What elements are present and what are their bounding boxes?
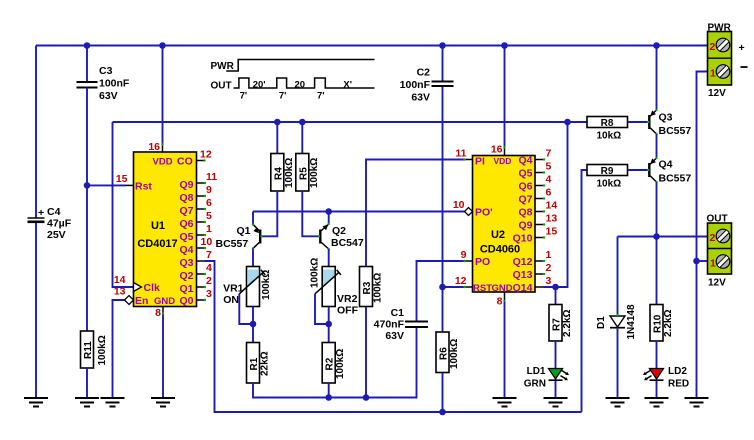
svg-text:Q13: Q13	[513, 269, 533, 281]
svg-text:14: 14	[114, 274, 126, 286]
U1 pin 16 VDD stub	[148, 141, 172, 168]
svg-text:1N4148: 1N4148	[626, 304, 637, 339]
svg-text:R10: R10	[653, 314, 664, 333]
resistor R10 2.2k	[650, 305, 674, 342]
svg-text:10kΩ: 10kΩ	[597, 131, 622, 142]
wire: VR2 bottom to R2	[328, 307, 330, 343]
svg-text:8: 8	[155, 307, 161, 319]
svg-text:+: +	[739, 42, 745, 54]
svg-text:Q14: Q14	[513, 282, 533, 294]
svg-text:15: 15	[116, 173, 128, 185]
svg-text:100nF: 100nF	[99, 78, 130, 90]
node: top rail / U2 VDD	[501, 42, 508, 49]
svg-text:Q5: Q5	[518, 168, 532, 180]
svg-text:100nF: 100nF	[400, 79, 431, 91]
timing diagram PWR trace	[226, 60, 374, 72]
wire: VR1 wiper to lower lead	[239, 294, 253, 324]
svg-text:Q10: Q10	[513, 233, 533, 245]
svg-text:Q3: Q3	[179, 257, 193, 269]
svg-text:C1: C1	[391, 307, 405, 319]
wire: Rst wire to U1 pin 15	[87, 184, 126, 186]
svg-text:Q7: Q7	[518, 194, 532, 206]
svg-text:12: 12	[200, 149, 212, 161]
wire: R3 bottom lead	[365, 307, 367, 398]
svg-text:8: 8	[497, 296, 503, 308]
node: top rail / C3	[84, 42, 91, 49]
svg-text:R11: R11	[83, 341, 94, 359]
op-amp U2 CD4060 IC body	[473, 156, 536, 293]
U1 right pin numbers	[201, 171, 218, 300]
svg-text:BC557: BC557	[659, 125, 692, 137]
resistor R7 2.2k	[549, 305, 573, 342]
op-amp U1 CD4017 IC body	[134, 152, 197, 307]
wire: PWR minus rail down to ground	[697, 72, 708, 399]
wire: R5 top riser	[301, 122, 303, 154]
svg-text:6: 6	[206, 197, 212, 209]
svg-text:PO: PO	[475, 256, 490, 268]
svg-text:X': X'	[343, 80, 352, 91]
wire: Q2 collector to VR2	[328, 249, 330, 267]
svg-text:RST: RST	[473, 283, 492, 294]
U1 pin 12 CO stub	[177, 149, 212, 168]
svg-text:7': 7'	[240, 91, 248, 102]
svg-text:63V: 63V	[99, 90, 118, 102]
U2 pin 9 PO	[461, 249, 491, 268]
transistor Q3 BC557	[647, 109, 691, 137]
U2 pin 11 PI	[455, 148, 485, 168]
timing diagram OUT trace	[234, 78, 375, 88]
wire: +12V top rail	[36, 45, 708, 47]
svg-text:15: 15	[546, 226, 558, 238]
svg-text:PO': PO'	[475, 207, 493, 219]
svg-text:16: 16	[148, 141, 160, 153]
svg-text:25V: 25V	[47, 229, 66, 241]
ground (LD2)	[645, 398, 669, 407]
svg-text:BC557: BC557	[659, 173, 692, 185]
svg-text:2.2kΩ: 2.2kΩ	[663, 310, 674, 337]
wire: Q2 emitter riser	[328, 212, 330, 225]
node: top rail / U1 VDD	[159, 42, 166, 49]
svg-text:VR1: VR1	[223, 283, 244, 295]
wire: C2 from top rail	[442, 46, 444, 82]
U1 right pin stubs Q9..Q0	[197, 183, 205, 300]
svg-text:BC547: BC547	[331, 237, 364, 249]
svg-text:R7: R7	[552, 318, 563, 331]
U2 right pin names	[513, 155, 533, 295]
svg-text:3: 3	[546, 275, 552, 287]
svg-text:R8: R8	[601, 118, 614, 129]
resistor R1 22k	[247, 343, 271, 384]
svg-text:100kΩ: 100kΩ	[310, 258, 321, 288]
svg-text:63V: 63V	[411, 92, 430, 104]
resistor R5 100k	[296, 154, 320, 192]
ground (C4)	[24, 398, 48, 407]
svg-text:16: 16	[491, 144, 503, 156]
svg-text:Clk: Clk	[144, 282, 161, 294]
svg-text:Q12: Q12	[513, 256, 533, 268]
ground (D1)	[606, 398, 630, 407]
node: RST/R6 net on bottom rail	[439, 409, 446, 416]
capacitor C3 100nF 63V	[77, 65, 130, 102]
U1 GND label and pin 8 stub	[154, 296, 175, 319]
svg-text:9: 9	[461, 249, 467, 261]
svg-text:PI: PI	[475, 156, 485, 168]
wire: PO' rail from Q1 emitter to U2 pin 10	[253, 211, 467, 213]
svg-text:PWR: PWR	[211, 61, 235, 72]
svg-text:Q4: Q4	[518, 155, 532, 167]
svg-text:Q4: Q4	[179, 244, 193, 256]
LED LD1 GRN	[524, 366, 569, 390]
capacitor C1 470nF 63V	[374, 307, 428, 342]
svg-text:C3: C3	[99, 65, 113, 77]
node: R3 bottom	[363, 394, 370, 401]
svg-text:47µF: 47µF	[47, 218, 72, 230]
svg-text:9: 9	[206, 184, 212, 196]
node: top rail / Q3 emitter	[653, 42, 660, 49]
wire: D1 anode riser	[617, 237, 619, 317]
svg-text:GND: GND	[154, 296, 175, 307]
wire: D1 cathode to ground	[617, 329, 619, 399]
U1 pin 15 Rst	[116, 173, 153, 193]
wire: Q1 emitter riser	[252, 212, 254, 225]
svg-text:Q9: Q9	[179, 179, 193, 191]
wire: U2 PI to R3 top	[366, 160, 465, 267]
node: VR2 wiper junction	[325, 321, 332, 328]
wire: Q1 collector to VR1	[252, 249, 254, 267]
U1 pin 13 En with inverter diamond	[114, 286, 149, 308]
svg-text:10: 10	[201, 236, 213, 248]
timing diagram labels	[211, 61, 353, 102]
svg-text:7: 7	[206, 249, 212, 261]
U1 right pin names Q9..Q0	[179, 179, 193, 307]
wire: Q3 collector to Q4 emitter	[656, 134, 658, 158]
U2 GND label and pin 8 stub	[492, 283, 513, 308]
svg-text:Q9: Q9	[518, 220, 532, 232]
diode D1 1N4148	[596, 304, 637, 339]
resistor R4 100k	[271, 154, 295, 192]
wire: OUT+ wire from D1 to OUT connector pin 2	[618, 236, 708, 238]
wire: R7 to LD1	[555, 341, 557, 369]
wire: R8 to Q3 base	[628, 121, 649, 123]
svg-text:D1: D1	[596, 316, 607, 329]
svg-text:Q5: Q5	[179, 231, 193, 243]
svg-text:22kΩ: 22kΩ	[260, 351, 271, 376]
svg-text:12V: 12V	[708, 88, 726, 99]
svg-text:Q1: Q1	[237, 225, 251, 237]
node: R5 top on clock rail	[299, 119, 306, 126]
svg-text:Q6: Q6	[518, 181, 532, 193]
svg-text:R1: R1	[249, 357, 260, 370]
svg-text:100kΩ: 100kΩ	[449, 339, 460, 369]
svg-text:R3: R3	[362, 281, 373, 294]
svg-text:1: 1	[710, 68, 716, 80]
wire: U1 Q3 output down to bottom rail	[205, 261, 582, 412]
ground (PWR minus)	[685, 398, 709, 407]
U2 right pin numbers	[546, 148, 558, 288]
wire: U1 VDD drop	[162, 46, 164, 145]
capacitor C2 100nF 63V	[400, 67, 454, 104]
svg-text:1: 1	[710, 258, 716, 270]
resistor R9 10k	[587, 165, 628, 190]
svg-text:Q3: Q3	[659, 112, 673, 124]
svg-text:En: En	[135, 295, 148, 307]
wire: left branch down to C4	[35, 46, 37, 219]
node: Q4 collector / OUT wire	[653, 233, 660, 240]
wire: R6 bottom to bottom rail	[442, 373, 444, 413]
U2 pin 16 VDD stub	[491, 144, 512, 167]
svg-text:10kΩ: 10kΩ	[597, 179, 622, 190]
svg-text:Q8: Q8	[518, 207, 532, 219]
ground (U2 GND)	[493, 398, 517, 407]
node: VR1 wiper junction	[250, 321, 257, 328]
wire: C3 branch from top rail	[86, 46, 88, 83]
svg-text:OFF: OFF	[337, 305, 359, 317]
svg-text:5: 5	[546, 161, 552, 173]
svg-text:OUT: OUT	[211, 81, 232, 92]
svg-text:LD2: LD2	[668, 366, 687, 377]
svg-text:CO: CO	[177, 156, 193, 168]
resistor R3 100k	[360, 267, 384, 307]
svg-text:GRN: GRN	[524, 379, 546, 390]
trimmer VR1 100k ON	[223, 267, 272, 307]
wire: U2 Q14 to clock feedback riser	[544, 122, 568, 287]
wire: R7 top lead	[555, 287, 557, 305]
svg-text:100kΩ: 100kΩ	[97, 335, 108, 365]
wire: C2/RST vertical down to R6	[442, 86, 444, 332]
wire: U1 En to ground	[113, 300, 125, 398]
svg-text:1: 1	[206, 223, 212, 235]
transistor Q4 BC557	[647, 157, 691, 185]
wire: R5 bottom to Q2 base	[302, 191, 319, 236]
svg-text:100kΩ: 100kΩ	[261, 270, 272, 300]
svg-text:2: 2	[546, 262, 552, 274]
node: Q2 emitter on PO' rail	[325, 208, 332, 215]
wire: R2 bottom lead	[328, 383, 330, 398]
svg-text:Q1: Q1	[179, 283, 193, 295]
svg-text:RED: RED	[668, 379, 689, 390]
resistor R8 10k	[587, 117, 628, 142]
svg-text:12: 12	[455, 275, 467, 287]
svg-text:Q2: Q2	[179, 270, 193, 282]
svg-text:VDD: VDD	[153, 157, 173, 168]
svg-text:4: 4	[206, 262, 212, 274]
wire: Q3 emitter to top rail	[656, 46, 658, 111]
node: R7 tap on Q14 wire	[552, 284, 559, 291]
svg-text:U2: U2	[491, 229, 505, 241]
svg-text:20': 20'	[253, 80, 266, 91]
svg-text:1: 1	[546, 249, 552, 261]
connector PWR 12V	[708, 23, 748, 100]
svg-text:R5: R5	[298, 167, 309, 180]
wire: U2 VDD drop	[504, 46, 506, 148]
wire: Q4 collector down to OUT node	[656, 182, 658, 237]
svg-text:BC557: BC557	[216, 238, 249, 250]
capacitor C4 47uF 25V electrolytic	[28, 206, 72, 241]
wire: C3 bottom down through Rst node to R11	[86, 88, 88, 332]
wire: timing net rail (R1 R2 R3 C1 bottoms)	[253, 327, 417, 398]
wire: R4 bottom to Q1 base	[262, 191, 278, 236]
svg-text:VDD: VDD	[494, 156, 512, 166]
resistor R6 100k	[436, 332, 460, 373]
svg-text:11: 11	[455, 148, 466, 160]
svg-text:10: 10	[453, 199, 465, 211]
svg-text:Q8: Q8	[179, 192, 193, 204]
wire: R9 left lead down to bottom rail	[582, 170, 588, 412]
svg-text:63V: 63V	[385, 330, 404, 342]
svg-text:GND: GND	[492, 283, 513, 294]
svg-text:20: 20	[295, 80, 306, 91]
resistor R11 100k	[81, 331, 109, 368]
svg-text:+: +	[38, 207, 44, 219]
node: Rst junction	[84, 182, 91, 189]
svg-text:ON: ON	[223, 294, 239, 306]
U2 right pin stubs	[535, 160, 544, 288]
svg-text:R6: R6	[439, 347, 450, 360]
svg-text:470nF: 470nF	[374, 319, 405, 331]
U1 pin 14 Clk with clock triangle	[114, 274, 160, 294]
U2 pin 12 RST	[455, 275, 492, 294]
svg-text:VR2: VR2	[337, 293, 358, 305]
svg-text:13: 13	[546, 213, 558, 225]
svg-text:14: 14	[546, 200, 558, 212]
wire: VR1 bottom to R1	[252, 307, 254, 343]
svg-text:2: 2	[206, 275, 212, 287]
node: clock rail / R8 / Q14 riser	[564, 119, 571, 126]
svg-text:Q0: Q0	[179, 295, 193, 307]
svg-text:2: 2	[710, 232, 716, 244]
connector OUT 12V	[707, 214, 732, 289]
resistor R2 100k	[322, 343, 346, 384]
svg-text:CD4017: CD4017	[137, 238, 177, 250]
svg-text:7': 7'	[279, 91, 287, 102]
svg-text:Q4: Q4	[659, 159, 673, 171]
svg-text:4: 4	[546, 174, 552, 186]
svg-text:2.2kΩ: 2.2kΩ	[562, 310, 573, 337]
svg-text:11: 11	[206, 171, 217, 183]
wire: LD1 to ground	[555, 381, 557, 399]
svg-text:13: 13	[114, 286, 126, 298]
svg-text:100kΩ: 100kΩ	[335, 349, 346, 379]
wire: R4 top riser	[276, 122, 278, 154]
svg-text:5: 5	[206, 210, 212, 222]
node: R2 bottom	[325, 394, 332, 401]
wire: U1 GND to ground	[162, 314, 164, 398]
wire: R8 left lead	[568, 121, 588, 123]
svg-text:R4: R4	[273, 167, 284, 180]
svg-text:100kΩ: 100kΩ	[284, 158, 295, 188]
ground (U1 GND)	[151, 398, 175, 407]
wire: R11 to ground	[86, 368, 88, 398]
wire: U2 PO to C1 top	[417, 261, 465, 322]
wire: R9 to Q4 base	[628, 169, 649, 171]
wire: LD2 to ground	[656, 381, 658, 399]
wire: U1 Clk drop	[113, 122, 134, 287]
transistor Q1 BC557	[216, 223, 263, 250]
wire: clock feedback rail (U1 Clk / R8 / Q14)	[113, 121, 568, 123]
trimmer VR2 100k OFF	[310, 258, 359, 317]
svg-text:C4: C4	[47, 206, 61, 218]
wire: U2 RST wire	[443, 286, 465, 288]
svg-text:3: 3	[206, 288, 212, 300]
svg-text:7: 7	[546, 148, 552, 160]
node: top rail / C2	[439, 42, 446, 49]
svg-text:2: 2	[710, 41, 716, 53]
node: OUT minus junction	[693, 258, 700, 265]
wire: C4 negative lead to ground	[35, 222, 37, 399]
svg-text:C2: C2	[417, 67, 431, 79]
ground (U1 En)	[101, 398, 125, 407]
node: R4 top on clock rail	[274, 119, 281, 126]
svg-text:7': 7'	[317, 91, 325, 102]
svg-text:R2: R2	[325, 357, 336, 370]
svg-text:100kΩ: 100kΩ	[309, 158, 320, 188]
svg-text:LD1: LD1	[527, 366, 546, 377]
ground (R11)	[75, 398, 99, 407]
LED LD2 RED	[643, 366, 689, 390]
svg-text:CD4060: CD4060	[480, 244, 520, 256]
svg-text:R9: R9	[601, 166, 614, 177]
svg-text:Q2: Q2	[332, 225, 346, 237]
wire: R10 top lead	[656, 237, 658, 305]
svg-text:12V: 12V	[708, 278, 726, 289]
svg-text:6: 6	[546, 187, 552, 199]
svg-text:U1: U1	[151, 220, 165, 232]
node: U2 RST junction	[439, 284, 446, 291]
U2 pin 10 PO' with inverter diamond	[453, 199, 493, 219]
svg-text:Q6: Q6	[179, 218, 193, 230]
U1 right pin terminals	[204, 182, 206, 301]
svg-text:Rst: Rst	[135, 181, 152, 193]
U2 right pin terminals	[543, 158, 545, 275]
ground (LD1)	[544, 398, 568, 407]
wire: U2 GND to ground	[504, 302, 506, 399]
svg-text:Q7: Q7	[179, 205, 193, 217]
wire: VR2 wiper to lower lead	[315, 294, 329, 324]
wire: OUT connector pin 1 to minus rail	[697, 260, 708, 262]
transistor Q2 BC547	[318, 223, 364, 250]
wire: R10 to LD2	[656, 341, 658, 369]
svg-text:100kΩ: 100kΩ	[373, 273, 384, 303]
